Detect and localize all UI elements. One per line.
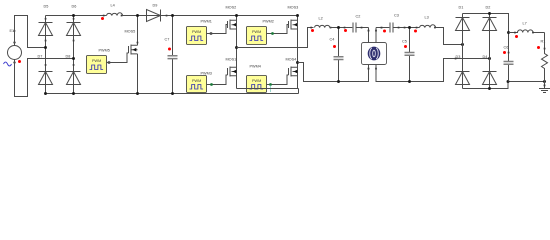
svg-text:D9: D9 (153, 4, 158, 8)
svg-text:D1: D1 (459, 6, 464, 10)
svg-text:C7: C7 (165, 38, 170, 42)
svg-text:D5: D5 (44, 5, 49, 9)
pin pad on leg2 wire (455, 58, 457, 60)
capacitor C7 (165, 16, 178, 94)
capacitor C6 (504, 33, 514, 82)
top rail (46, 15, 299, 17)
PWM5 output pad (108, 61, 110, 63)
wire L2 to C2 (330, 27, 353, 29)
node source-bottom to leg2 midpoint (72, 57, 75, 60)
red probe before C3 (383, 30, 386, 33)
svg-text:C3: C3 (394, 14, 399, 18)
bottom bus (46, 89, 299, 94)
svg-text:MOS3: MOS3 (288, 6, 299, 10)
node D4 anode on bottom rail (488, 87, 491, 90)
red probe at R1 (537, 46, 540, 49)
svg-text:PWM5: PWM5 (99, 49, 110, 53)
node B right leg midpoint (296, 61, 299, 64)
inductor L3 (416, 16, 436, 29)
svg-text:MOS4: MOS4 (286, 58, 297, 62)
svg-text:MOS2: MOS2 (226, 6, 237, 10)
node A left leg midpoint (235, 46, 238, 49)
secondary top wire (376, 27, 390, 29)
gate node pad MOS1 (green) (210, 83, 213, 86)
ground (539, 82, 550, 93)
diode D1 (456, 6, 470, 89)
red probe after L2 (344, 29, 347, 32)
wire PWM1 to MOS2 gate (207, 25, 228, 34)
svg-text:E1: E1 (10, 29, 15, 33)
svg-text:L3: L3 (425, 16, 429, 20)
diode D7 (38, 55, 53, 85)
diode D6 (67, 5, 81, 94)
pin pad C2 left (344, 27, 346, 29)
pin pad C3 left (381, 27, 383, 29)
node D2 cathode on top rail (488, 12, 491, 15)
red probe dot at source (18, 60, 21, 63)
pads on bridge legs (45, 40, 47, 42)
wire PWM2 to MOS3 gate (267, 25, 289, 34)
node load bottom (543, 80, 546, 83)
red probe at C6 (503, 51, 506, 54)
wire inverter right-mid to tank bottom (298, 63, 369, 82)
diode D3 (456, 55, 470, 85)
PWM2 gating block (247, 20, 274, 45)
node C6 top (507, 31, 510, 34)
wire PWM4 to MOS4 gate (267, 75, 289, 85)
capacitor C3 (series) (390, 14, 420, 33)
svg-text:PWM3: PWM3 (201, 72, 212, 76)
svg-text:PWM: PWM (192, 30, 201, 34)
node C5 bottom (408, 80, 411, 83)
wire PWM5 to MOS5 gate (107, 53, 129, 63)
inductor L7 (509, 22, 545, 33)
gate node pad MOS3 (green) (271, 32, 274, 35)
PWM3 gating block (187, 72, 212, 93)
junction dots rails (72, 14, 75, 17)
right leg lead (297, 16, 299, 89)
svg-text:L4: L4 (111, 4, 115, 8)
node source-top to leg1 midpoint (44, 46, 47, 49)
diode D5 (39, 5, 53, 94)
svg-text:PWM2: PWM2 (263, 20, 274, 24)
diode D2 (483, 6, 497, 89)
svg-text:MOS1: MOS1 (226, 58, 237, 62)
capacitor C4 (parallel) (330, 28, 344, 82)
pin pad wire node (404, 27, 406, 29)
wire source top to leg1 mid (15, 16, 46, 48)
MOSFET MOS4 (286, 58, 298, 77)
PWM4 gating block (247, 65, 267, 93)
svg-text:PWM: PWM (252, 79, 261, 83)
wire to output bridge leg1 mid (436, 28, 463, 45)
AC source E1 (8, 29, 22, 64)
resistor R1 (541, 33, 548, 82)
pin pad L4 right (121, 15, 123, 17)
svg-text:C6: C6 (504, 46, 509, 50)
transformer TX (362, 28, 387, 73)
svg-text:C5: C5 (402, 40, 407, 44)
MOSFET MOS3 (288, 6, 299, 30)
pin pad C2 right (361, 27, 363, 29)
output bottom rail (463, 82, 545, 89)
PWM1 gating block (187, 20, 212, 45)
node MOS5 drain on top rail (136, 14, 139, 17)
svg-text:D8: D8 (66, 55, 71, 59)
diode D9 (147, 4, 161, 22)
left leg lead (236, 16, 238, 89)
MOSFET MOS1 (226, 58, 237, 77)
node C6 bottom (507, 80, 510, 83)
red probe at L7 (515, 35, 518, 38)
inverter source rail (237, 88, 299, 90)
capacitor C2 (series) (353, 15, 369, 33)
svg-text:D2: D2 (486, 6, 491, 10)
MOSFET MOS2 (226, 6, 237, 30)
pin pad D9 cathode (166, 15, 168, 17)
capacitor C5 (parallel) (402, 28, 415, 82)
inductor L4 (107, 4, 123, 16)
node output leg1 midpoint (461, 43, 464, 46)
svg-text:PWM4: PWM4 (250, 65, 261, 69)
svg-text:D3: D3 (456, 55, 461, 59)
MOSFET MOS5 (125, 16, 139, 94)
svg-text:PWM: PWM (252, 30, 261, 34)
gate node pad MOS4 (green) with stub (269, 83, 272, 86)
diode D8 (66, 55, 81, 85)
red probe before L4 (101, 17, 104, 20)
svg-text:C2: C2 (356, 15, 361, 19)
red probe tank top (311, 29, 314, 32)
AC sine symbol (4, 62, 12, 66)
diode D4 (483, 55, 497, 85)
red probe at C5 (404, 45, 407, 48)
wire PWM3 to MOS1 gate (207, 75, 228, 85)
PWM5 gating block (87, 49, 110, 74)
pin pad C3 right (398, 27, 400, 29)
svg-text:L2: L2 (319, 17, 323, 21)
node MOS3 drain on top rail (296, 14, 299, 17)
svg-text:D6: D6 (72, 5, 77, 9)
node output leg2 midpoint (488, 57, 491, 60)
svg-text:D7: D7 (38, 55, 43, 59)
svg-text:D4: D4 (483, 55, 488, 59)
wire inverter left-mid to tank top (237, 28, 314, 48)
pin pads L7 (514, 32, 516, 34)
svg-text:C4: C4 (330, 38, 335, 42)
PWM1 output pad (210, 32, 212, 34)
wire source bottom to leg2 mid (15, 59, 74, 97)
node MOS2 drain on top rail (235, 14, 238, 17)
transformer secondary bottom wire (376, 59, 490, 82)
node MOS5 source on bus (136, 92, 139, 95)
red probe before L3 (414, 30, 417, 33)
svg-text:MOS5: MOS5 (125, 30, 136, 34)
red probe at C4 (333, 45, 336, 48)
svg-text:PWM: PWM (192, 79, 201, 83)
output top rail (463, 14, 509, 33)
svg-text:PWM: PWM (92, 59, 101, 63)
svg-text:PWM1: PWM1 (201, 20, 212, 24)
node C5 top (408, 26, 411, 29)
node C4 bottom (337, 80, 340, 83)
node C4 top (337, 26, 340, 29)
inductor L2 (310, 17, 331, 29)
svg-text:L7: L7 (523, 22, 527, 26)
